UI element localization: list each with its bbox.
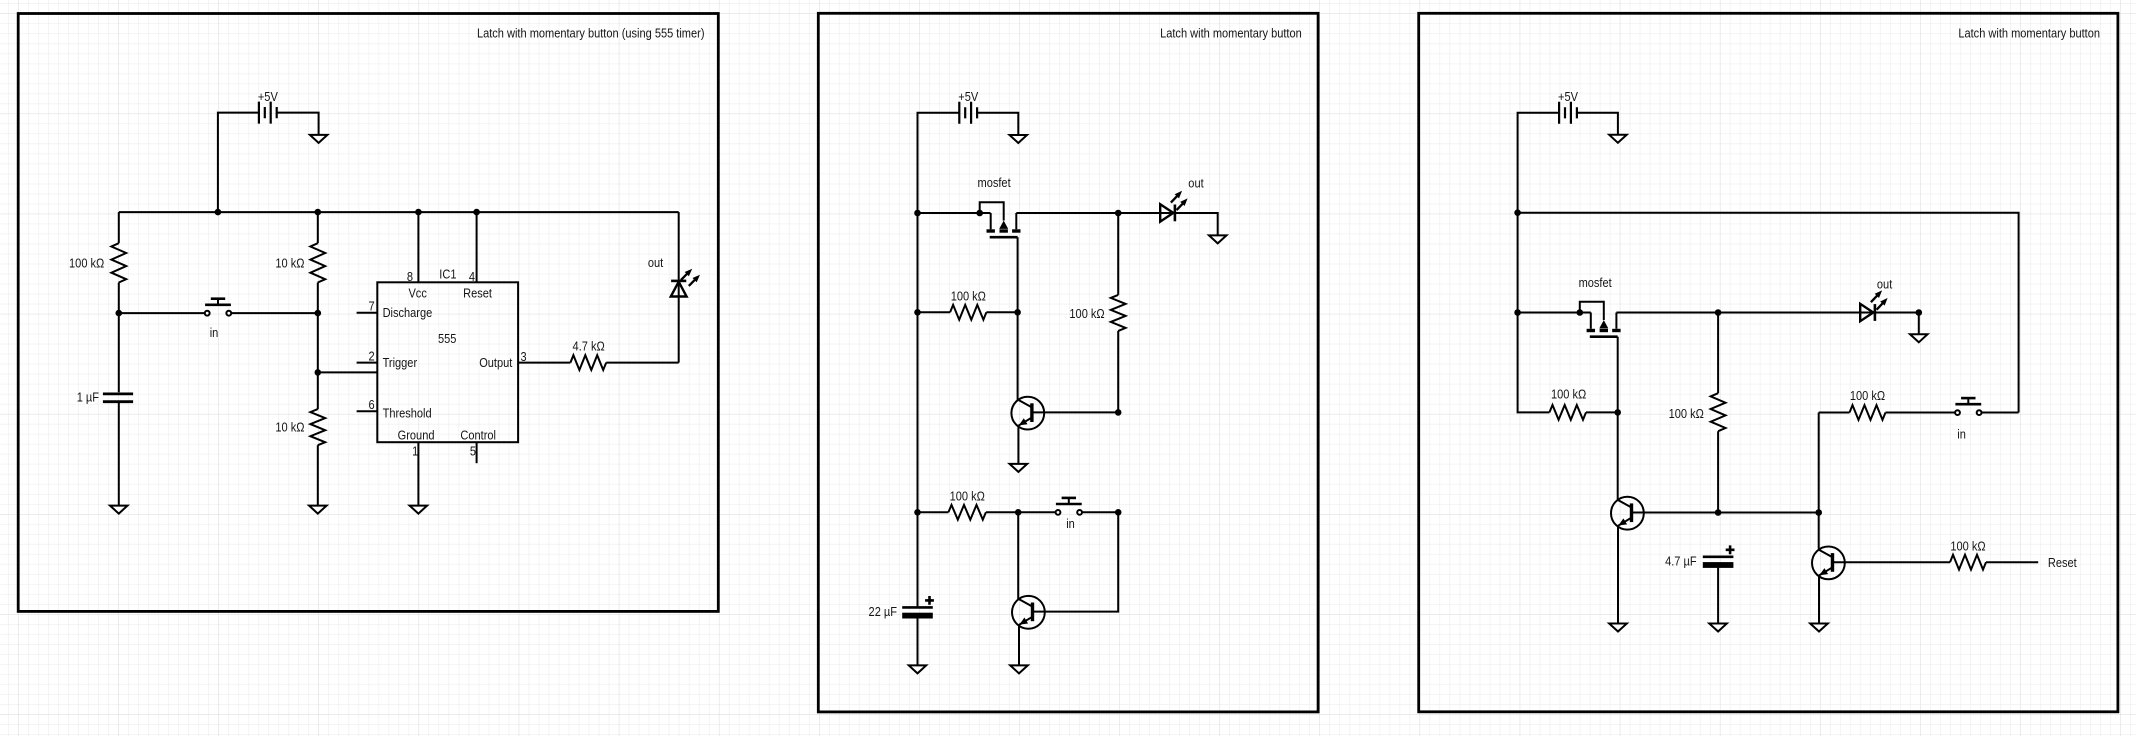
resistor R4 4.7 kOhm (panel 1) bbox=[570, 355, 606, 370]
svg-text:out: out bbox=[1877, 277, 1893, 292]
wire: R7 to node B / button bbox=[986, 511, 1055, 513]
wire: R11 to Reset terminal bbox=[1986, 561, 2038, 563]
pin 7 stub (Discharge) bbox=[357, 312, 378, 314]
battery V3 +5V (panel 3) bbox=[1559, 102, 1577, 124]
svg-text:+5V: +5V bbox=[1558, 89, 1579, 104]
ground (C2, panel 2) bbox=[909, 665, 926, 673]
pushbutton SW2 "in" (panel 2) bbox=[1056, 498, 1082, 515]
wire: Q4 emitter to ground bbox=[1818, 576, 1820, 623]
wire: rail to R2 bbox=[317, 212, 319, 243]
ground (LED, panel 2) bbox=[1209, 235, 1227, 243]
node: LED / ground corner bbox=[1916, 309, 1923, 316]
svg-text:in: in bbox=[210, 325, 219, 340]
wire: drop to Q2 collector bbox=[1033, 512, 1119, 611]
wire: rail to R5 bbox=[918, 311, 951, 313]
node: gate / R5 junction bbox=[1014, 309, 1021, 316]
svg-text:10 kΩ: 10 kΩ bbox=[275, 255, 304, 270]
pushbutton SW3 "in" (panel 3) bbox=[1955, 398, 1981, 415]
wire: +5V rail (panel 1) bbox=[119, 211, 679, 213]
wire: +5V top rail and right drop (panel 3) bbox=[1518, 213, 2019, 413]
svg-text:8: 8 bbox=[407, 269, 413, 284]
node: Q3 collector / Q4 base junction bbox=[1815, 509, 1822, 516]
ground (LED, panel 3) bbox=[1910, 334, 1928, 342]
resistor R11 100 kOhm (panel 3) bbox=[1950, 555, 1986, 570]
wire: battery V3 to ground bbox=[1577, 113, 1618, 135]
ground (Q3, panel 3) bbox=[1609, 624, 1627, 632]
node A: R1 / button / C1 junction bbox=[116, 310, 123, 317]
wire: Q2 emitter to ground bbox=[1018, 625, 1020, 665]
resistor R8 100 kOhm (panel 3) bbox=[1549, 405, 1586, 420]
svg-text:Latch with momentary button (u: Latch with momentary button (using 555 t… bbox=[477, 26, 705, 41]
node: mosfet body tie bbox=[976, 210, 983, 217]
node: rail / pin 4 junction bbox=[473, 209, 480, 216]
battery V2 +5V (panel 2) bbox=[959, 102, 977, 124]
ground (battery, panel 1) bbox=[310, 135, 328, 143]
LED D2 (out, panel 2) bbox=[1160, 191, 1187, 222]
resistor R1 100 kOhm (panel 1) bbox=[111, 243, 126, 282]
resistor R9 100 kOhm (panel 3) bbox=[1711, 393, 1726, 431]
svg-text:+5V: +5V bbox=[258, 89, 279, 104]
node: button / R2-R3 junction bbox=[315, 310, 322, 317]
wire: left rail down to R8 bbox=[1518, 213, 1550, 413]
LED D3 (out, panel 3) bbox=[1860, 290, 1887, 321]
svg-text:mosfet: mosfet bbox=[978, 175, 1012, 190]
svg-text:100 kΩ: 100 kΩ bbox=[1950, 538, 1985, 553]
ground (IC1 pin 1) bbox=[410, 506, 428, 514]
wire: Q3 emitter to ground bbox=[1617, 526, 1619, 623]
svg-text:10 kΩ: 10 kΩ bbox=[275, 419, 304, 434]
svg-text:mosfet: mosfet bbox=[1579, 275, 1613, 290]
wire: Q1 emitter to ground bbox=[1017, 426, 1019, 464]
ground (Q4, panel 3) bbox=[1810, 624, 1828, 632]
pushbutton SW1 "in" (panel 1) bbox=[205, 299, 231, 316]
wire: R1 to C1 bbox=[118, 283, 120, 393]
node: rail / R7 row bbox=[914, 509, 921, 516]
svg-text:100 kΩ: 100 kΩ bbox=[1069, 306, 1104, 321]
wire: battery V1 positive lead to ground bbox=[277, 113, 319, 135]
pin 8 wire (Vcc) bbox=[417, 212, 419, 282]
wire: mosfet drain to LED row bbox=[1616, 313, 1918, 334]
transistor M2 mosfet (panel 3) bbox=[1580, 302, 1621, 337]
panel 2 frame bbox=[818, 13, 1318, 712]
wire: in node down to Q4 base bbox=[1818, 413, 1820, 549]
svg-text:Latch with momentary button: Latch with momentary button bbox=[1958, 25, 2100, 40]
node: left rail / mosfet row bbox=[1514, 309, 1521, 316]
svg-text:100 kΩ: 100 kΩ bbox=[1551, 387, 1586, 402]
ground (Q2, panel 2) bbox=[1010, 665, 1028, 673]
svg-text:1 µF: 1 µF bbox=[77, 390, 99, 405]
wire: battery V3 to left rail bbox=[1518, 113, 1560, 213]
wire: R6 to Q1 collector bbox=[1117, 331, 1119, 413]
svg-text:4.7 kΩ: 4.7 kΩ bbox=[573, 339, 605, 354]
svg-text:IC1: IC1 bbox=[439, 266, 456, 281]
capacitor C1 1 uF (panel 1) bbox=[103, 394, 133, 402]
wire: rail to mosfet source (panel 3) bbox=[1518, 312, 1591, 314]
wire: trigger node to IC1 bbox=[318, 371, 378, 373]
wire: node B down to Q2 base bbox=[1017, 512, 1019, 599]
transistor Q2 NPN (panel 2) bbox=[1012, 596, 1045, 629]
wire: button to +5V drop bbox=[1982, 412, 2019, 414]
svg-text:100 kΩ: 100 kΩ bbox=[69, 255, 104, 270]
wire: drain node to R6 bbox=[1117, 213, 1119, 295]
svg-text:Trigger: Trigger bbox=[383, 355, 418, 370]
wire: mosfet gate down to Q1 base bbox=[1017, 237, 1019, 400]
wire: R9 to Q3 collector row bbox=[1717, 431, 1719, 513]
capacitor C2 22 uF (panel 2) bbox=[902, 596, 934, 619]
resistor R6 100 kOhm (panel 2) bbox=[1111, 295, 1126, 331]
svg-text:5: 5 bbox=[470, 444, 476, 459]
svg-text:100 kΩ: 100 kΩ bbox=[1850, 388, 1885, 403]
svg-text:22 µF: 22 µF bbox=[869, 604, 897, 619]
svg-text:in: in bbox=[1957, 427, 1966, 442]
svg-text:in: in bbox=[1066, 516, 1075, 531]
svg-text:out: out bbox=[648, 255, 664, 270]
wire: left rail (panel 2) bbox=[917, 213, 919, 606]
pin 1 wire (Ground) bbox=[417, 442, 419, 505]
svg-text:Vcc: Vcc bbox=[408, 285, 426, 300]
node: Q1 collector / R6 junction bbox=[1115, 409, 1122, 416]
ground (Q1, panel 2) bbox=[1010, 464, 1028, 472]
svg-text:555: 555 bbox=[438, 331, 457, 346]
wire: mosfet drain to LED and ground bbox=[1016, 213, 1217, 235]
svg-text:Latch with momentary button: Latch with momentary button bbox=[1160, 25, 1302, 40]
pin 3 wire (Output) to R4 bbox=[518, 362, 570, 364]
wire: C2 to ground bbox=[917, 618, 919, 665]
wire: R10 to button bbox=[1886, 412, 1955, 414]
wire: Q4 collector to R11 bbox=[1833, 561, 1951, 563]
svg-text:Control: Control bbox=[460, 427, 496, 442]
wire: R2 to R3 bbox=[317, 283, 319, 410]
panel 1 frame bbox=[18, 14, 718, 612]
wire: mosfet gate down to Q3 base bbox=[1617, 337, 1619, 500]
ground (R3, panel 1) bbox=[309, 506, 327, 514]
wire: pushbutton to R2/R3 node bbox=[232, 312, 318, 314]
svg-text:+5V: +5V bbox=[958, 89, 979, 104]
svg-text:2: 2 bbox=[369, 348, 375, 363]
transistor Q4 NPN (panel 3) bbox=[1812, 547, 1845, 580]
transistor Q1 NPN (panel 2) bbox=[1011, 397, 1044, 430]
svg-text:Output: Output bbox=[479, 355, 513, 370]
pin 2 stub (Trigger) bbox=[357, 362, 378, 364]
wire: C3 to ground bbox=[1717, 568, 1719, 623]
transistor Q3 NPN (panel 3) bbox=[1611, 497, 1644, 530]
svg-text:100 kΩ: 100 kΩ bbox=[951, 288, 986, 303]
wire: Q1 collector to R6 node bbox=[1032, 411, 1118, 413]
node: gate / R8 junction bbox=[1614, 409, 1621, 416]
svg-text:Ground: Ground bbox=[398, 427, 435, 442]
wire: in row left lead (panel 3) bbox=[1819, 412, 1850, 414]
node: rail / pin 8 junction bbox=[415, 209, 422, 216]
wire: R8 to gate node bbox=[1586, 411, 1618, 413]
wire: rail to R7 bbox=[918, 511, 949, 513]
wire: battery V1 negative lead to +5V rail bbox=[218, 113, 259, 213]
IC U1: 555 timer body bbox=[377, 282, 518, 442]
node: rail / R5 row bbox=[914, 309, 921, 316]
resistor R10 100 kOhm (panel 3) bbox=[1850, 405, 1886, 420]
ground (C3, panel 3) bbox=[1709, 624, 1727, 632]
pin 6 stub (Threshold) bbox=[357, 410, 378, 412]
svg-text:Threshold: Threshold bbox=[383, 406, 432, 421]
resistor R3 10 kOhm (panel 1) bbox=[310, 409, 325, 445]
battery V1 +5V (panel 1) bbox=[259, 102, 277, 124]
wire: R4 to LED bbox=[606, 362, 679, 364]
resistor R7 100 kOhm (panel 2) bbox=[948, 505, 986, 520]
node: button / drop junction bbox=[1115, 509, 1122, 516]
svg-text:Reset: Reset bbox=[463, 285, 492, 300]
capacitor C3 4.7 uF (panel 3) bbox=[1703, 545, 1735, 567]
pin 5 stub (Control) bbox=[476, 442, 478, 463]
svg-text:out: out bbox=[1188, 175, 1204, 190]
wire: R5 to gate node bbox=[986, 311, 1017, 313]
svg-text:3: 3 bbox=[521, 349, 527, 364]
transistor M1 mosfet (panel 2) bbox=[980, 202, 1021, 237]
wire: rail to mosfet source bbox=[918, 212, 991, 214]
svg-text:4: 4 bbox=[469, 269, 475, 284]
wire: LED branch (out) bbox=[678, 212, 680, 363]
resistor R5 100 kOhm (panel 2) bbox=[950, 305, 986, 320]
svg-text:Reset: Reset bbox=[2048, 555, 2077, 570]
panel 3 frame bbox=[1419, 13, 2118, 712]
svg-text:100 kΩ: 100 kΩ bbox=[1669, 406, 1704, 421]
node: mosfet body tie (panel 3) bbox=[1577, 309, 1584, 316]
wire: R3 to ground bbox=[317, 445, 319, 505]
ground (battery, panel 3) bbox=[1609, 135, 1627, 143]
node: rail / battery junction bbox=[215, 209, 222, 216]
node: drain / R6 top junction bbox=[1115, 210, 1122, 217]
node: trigger junction bbox=[315, 369, 322, 376]
wire: battery V2 to ground bbox=[977, 113, 1018, 135]
ground (C1, panel 1) bbox=[110, 506, 128, 514]
node: rail / mosfet row bbox=[914, 210, 921, 217]
svg-text:Discharge: Discharge bbox=[383, 305, 433, 320]
wire: drain node to R9 bbox=[1717, 313, 1719, 394]
wire: battery V2 to left rail bbox=[918, 113, 960, 213]
svg-text:4.7 µF: 4.7 µF bbox=[1665, 554, 1697, 569]
node B: R7 / Q2 base junction bbox=[1015, 509, 1022, 516]
ground (battery, panel 2) bbox=[1010, 135, 1028, 143]
wire: C1 to ground bbox=[118, 403, 120, 505]
svg-text:100 kΩ: 100 kΩ bbox=[950, 488, 985, 503]
resistor R2 10 kOhm (panel 1) bbox=[310, 243, 325, 282]
svg-text:6: 6 bbox=[369, 397, 375, 412]
LED D1 (out, panel 1) bbox=[671, 269, 700, 297]
node: Q3 collector / C3 junction bbox=[1715, 509, 1722, 516]
node: drain / R9 top junction bbox=[1715, 309, 1722, 316]
node: rail / R2 junction bbox=[315, 209, 322, 216]
svg-text:1: 1 bbox=[412, 444, 418, 459]
pin 4 wire (Reset) bbox=[476, 212, 478, 282]
node: rail / left rail junction bbox=[1514, 209, 1521, 216]
wire: Q3 collector row bbox=[1632, 512, 1819, 514]
svg-text:7: 7 bbox=[369, 299, 375, 314]
wire: node A to pushbutton bbox=[119, 312, 205, 314]
wire: rail to R1 bbox=[118, 212, 120, 243]
wire: button to R6 branch bbox=[1082, 511, 1118, 513]
